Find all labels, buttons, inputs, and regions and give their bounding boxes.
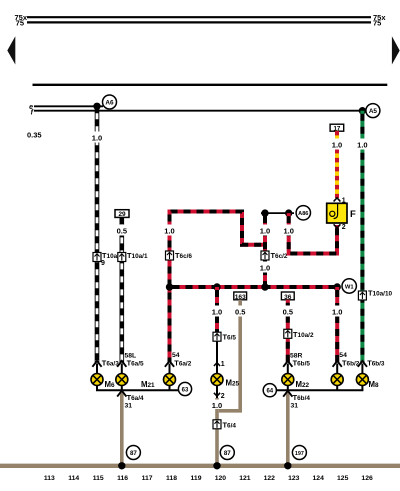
junction A86 line left [261, 209, 268, 216]
svg-text:120: 120 [215, 475, 227, 482]
junction bottom bus x=217 [213, 462, 220, 469]
connector T6c/2 [261, 251, 288, 260]
svg-text:126: 126 [361, 475, 373, 482]
svg-text:122: 122 [264, 475, 276, 482]
wire yellow/red x=337 (17 down to fuse pin1) [329, 131, 345, 198]
wire f (to A5) [34, 110, 366, 112]
svg-text:1.0: 1.0 [212, 308, 222, 317]
svg-text:M25: M25 [226, 379, 240, 388]
fuse F [327, 203, 356, 223]
svg-text:2: 2 [221, 393, 225, 400]
svg-text:F: F [350, 209, 356, 220]
svg-text:125: 125 [337, 475, 349, 482]
connector T6/5 [213, 332, 236, 342]
wire black/white x=121.8 (29 down to T6a/5) [114, 217, 130, 362]
svg-text:1.0: 1.0 [357, 141, 367, 150]
node A5 [366, 104, 380, 118]
svg-text:1.0: 1.0 [283, 227, 293, 236]
svg-text:31: 31 [125, 403, 133, 410]
node A6 [103, 95, 117, 109]
svg-text:T6b/4: T6b/4 [293, 393, 311, 402]
wire brown from 163 (down, left to M25 branch) [219, 300, 248, 411]
lamp M21 filament 54 [141, 374, 176, 390]
wire red/black top run (corner at x169.5 to x242, jog down to y244.8, right to x265) [170, 212, 266, 245]
svg-text:121: 121 [239, 475, 251, 482]
fuse pin 1 [334, 198, 346, 205]
connector T6/4 [213, 420, 236, 430]
lamp feeds (thin wires connector to lamp) [97, 364, 362, 374]
svg-text:M22: M22 [296, 380, 310, 389]
svg-text:0.5: 0.5 [235, 308, 245, 317]
wire red/black x=337.2 (bus down to T6b/2) [329, 287, 345, 363]
connector T6c/6 [166, 251, 193, 260]
connector T6a/2 [165, 358, 192, 367]
lamp M25 [211, 374, 240, 388]
svg-text:124: 124 [313, 475, 325, 482]
svg-text:T6b/2: T6b/2 [342, 358, 360, 367]
connector T6a/4 [117, 391, 144, 402]
svg-text:116: 116 [117, 475, 128, 482]
wire green/black x=362.4 (A5 down to T6b/3) [354, 111, 370, 363]
svg-text:T6b/3: T6b/3 [367, 358, 385, 367]
connector T10a/1 [118, 251, 148, 262]
svg-text:119: 119 [191, 475, 202, 482]
box 36 [281, 292, 294, 301]
svg-text:1.0: 1.0 [260, 264, 270, 273]
wire red/black x=169.5 (down to T6a/2) [162, 212, 178, 363]
svg-text:T6a/3: T6a/3 [102, 358, 119, 367]
svg-text:29: 29 [118, 211, 126, 218]
pin 2 M25 [214, 393, 225, 400]
separator line [33, 84, 388, 86]
junction bus x=337.2 [334, 283, 341, 290]
connector T6b/3 [358, 358, 385, 367]
node line A86 [261, 212, 294, 214]
bus 75x top double line [27, 17, 371, 22]
svg-text:87: 87 [130, 450, 137, 457]
svg-text:T6c/6: T6c/6 [175, 251, 192, 260]
svg-text:117: 117 [142, 475, 153, 482]
junction on wire e [93, 103, 100, 110]
label 75x/75 right [373, 13, 386, 28]
svg-text:A86: A86 [298, 211, 308, 217]
junction A86 line right [285, 209, 292, 216]
svg-text:1: 1 [221, 361, 225, 368]
svg-text:0.5: 0.5 [283, 308, 293, 317]
ground 87 (left) [126, 446, 140, 460]
lamp M8 [356, 374, 379, 390]
label 75x/75 left [14, 13, 27, 28]
svg-text:0.35: 0.35 [27, 131, 42, 140]
direction arrow left [7, 36, 15, 64]
wire red/black x=217 (bus down to T6/5) [209, 287, 225, 337]
svg-text:2: 2 [342, 224, 346, 231]
svg-text:T6/5: T6/5 [223, 333, 237, 342]
node 63 [178, 382, 191, 395]
pin 1 M25 [214, 361, 225, 368]
svg-text:M21: M21 [141, 380, 155, 389]
wire brown x=287.8 (T6b/4 to bottom bus) [286, 392, 290, 466]
svg-text:63: 63 [182, 387, 189, 393]
junction on wire f [359, 107, 366, 114]
left cluster return wire [96, 386, 179, 391]
right cluster return wire [276, 386, 363, 393]
node 64 [263, 384, 276, 397]
wire red/black x=287.8 (36 down to T6b/5) [280, 300, 296, 363]
svg-text:115: 115 [93, 475, 104, 482]
lamp M22 filament 54 [331, 374, 343, 386]
svg-text:T6/4: T6/4 [223, 420, 237, 429]
wire M25 feed (T6/5 to lamp) [216, 341, 218, 373]
lamp M21 filament 58L [116, 374, 128, 386]
svg-text:113: 113 [44, 475, 55, 482]
svg-text:T6a/5: T6a/5 [127, 358, 144, 367]
direction arrow right [392, 36, 400, 64]
wire black/white x=97 (A6 down to T6a/3) [89, 106, 105, 362]
ground bus bottom [0, 464, 400, 468]
wire red/black x=265 (A86 line down to bus) [257, 213, 273, 287]
wire brown M25 down (lamp to T6/4 to bottom bus) [210, 386, 225, 466]
lamp M22 filament 58R [282, 374, 310, 390]
svg-text:75: 75 [16, 19, 24, 28]
connector T6a/5 [117, 358, 144, 367]
svg-text:M6: M6 [105, 380, 116, 389]
svg-text:W1: W1 [345, 284, 354, 290]
ground 197 [292, 446, 306, 460]
svg-text:64: 64 [266, 389, 273, 395]
svg-text:T10a/1: T10a/1 [127, 251, 148, 260]
svg-text:1.0: 1.0 [332, 141, 342, 150]
svg-text:T6b/5: T6b/5 [293, 358, 311, 367]
svg-text:T10a/: T10a/ [102, 251, 119, 260]
junction bus x=169.5 [166, 283, 173, 290]
box 29 [115, 210, 129, 219]
track numbers [44, 475, 373, 482]
connector T10a/2 [284, 329, 314, 339]
svg-text:36: 36 [284, 294, 292, 301]
svg-text:197: 197 [295, 451, 304, 457]
box 17 [330, 124, 344, 132]
junction bottom bus x=121.8 [118, 462, 125, 469]
svg-text:114: 114 [68, 475, 79, 482]
svg-text:0.5: 0.5 [117, 227, 127, 236]
svg-text:9: 9 [101, 260, 105, 267]
svg-text:T10a/2: T10a/2 [293, 330, 314, 339]
box 163 [234, 292, 247, 301]
svg-text:1.0: 1.0 [92, 134, 102, 143]
connector T6b/5 [283, 358, 310, 367]
svg-text:1.0: 1.0 [164, 227, 174, 236]
svg-text:118: 118 [166, 475, 177, 482]
svg-text:1.0: 1.0 [332, 308, 342, 317]
connector T6a/3 [92, 358, 119, 367]
svg-text:75: 75 [373, 19, 381, 28]
node A86 [296, 206, 310, 220]
svg-text:T6c/2: T6c/2 [271, 251, 288, 260]
connector T6b/2 [333, 358, 360, 367]
wire e (to A6) [34, 105, 103, 107]
connector T10a/10 [358, 289, 392, 301]
connector T6b/4 [283, 391, 310, 402]
junction bottom bus x=287.8 [284, 462, 291, 469]
svg-text:163: 163 [235, 294, 246, 301]
svg-text:A6: A6 [105, 100, 114, 107]
wire red/black bus y=287 [170, 285, 338, 289]
svg-text:A5: A5 [369, 108, 378, 115]
svg-text:M8: M8 [369, 380, 380, 389]
svg-text:T6a/4: T6a/4 [127, 393, 144, 402]
svg-text:1.0: 1.0 [260, 227, 270, 236]
wire red/black fuse return (A86 down, right to fuse pin2) [281, 213, 337, 253]
svg-text:31: 31 [291, 403, 299, 410]
svg-text:1.0: 1.0 [212, 401, 222, 410]
junction bus x=265 [261, 283, 268, 290]
wire brown x=121.8 (T6a/4 to bottom bus) [120, 392, 124, 466]
svg-text:123: 123 [288, 475, 300, 482]
ground 87 (middle) [220, 446, 234, 460]
svg-text:87: 87 [224, 450, 231, 457]
svg-text:T10a/10: T10a/10 [368, 289, 393, 298]
junction bus x=217 [213, 283, 220, 290]
node W1 [342, 279, 356, 293]
lamp M6 [91, 374, 115, 390]
svg-text:T6a/2: T6a/2 [174, 358, 191, 367]
fuse pin 2 [334, 224, 346, 231]
connector T10a/9 [93, 251, 119, 267]
